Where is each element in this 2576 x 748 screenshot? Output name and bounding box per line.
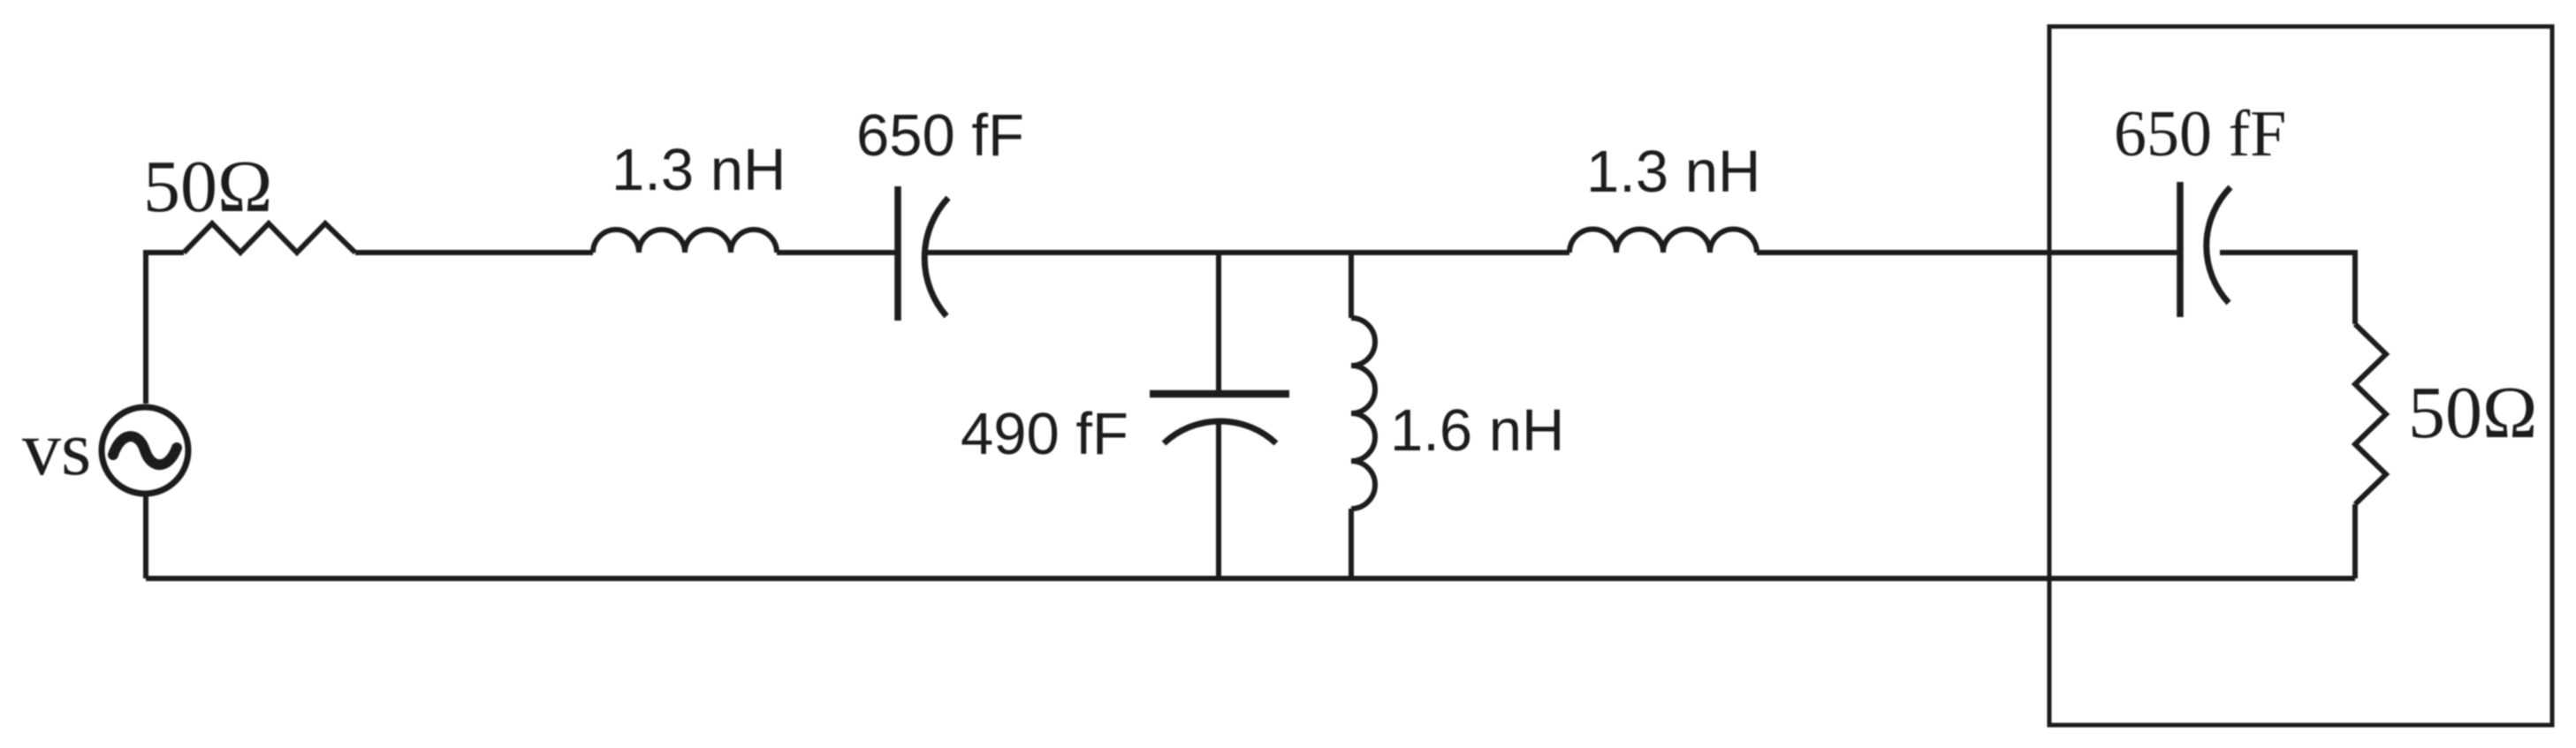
wire from L3 into box to C3 [1757,250,2177,255]
wire from R1 to L1 [355,250,593,255]
wire from source bottom to bottom rail [143,494,148,578]
capacitor C1 curved plate [924,198,948,316]
wire below R2 to bottom rail [2352,504,2358,578]
inductor L3 1.3 nH (4 humps) [1569,230,1757,253]
svg-text:50Ω: 50Ω [143,146,272,228]
bottom rail wire [146,576,2355,581]
voltage source VS circle [102,407,188,494]
node B: shunt inductor branch wire down [1349,253,1354,318]
inductor L2 1.6 nH (vertical, 4 bumps right) [1351,318,1375,509]
wire from C3 to top of R2 [2220,253,2355,324]
svg-text:1.6 nH: 1.6 nH [1390,397,1564,464]
capacitor C3 650 fF straight plate [2177,182,2184,317]
svg-text:490 fF: 490 fF [961,401,1128,467]
node A: shunt capacitor branch wire down [1216,253,1221,394]
wire below C2 to bottom rail [1216,421,1221,578]
wire from L1 to C1 [777,250,895,255]
capacitor C2 curved plate [1164,421,1276,443]
svg-text:1.3 nH: 1.3 nH [612,137,786,203]
svg-text:50Ω: 50Ω [2408,372,2537,454]
wire top-left corner from source to resistor [146,253,184,404]
resistor R1 50 ohm (series, horizontal zigzag) [184,223,355,253]
capacitor C3 curved plate [2207,187,2230,303]
voltage source sine symbol [113,436,177,465]
svg-text:vs: vs [22,406,91,492]
inductor L1 1.3 nH (4 humps) [593,230,777,253]
load box enclosure [2049,26,2552,725]
wire from C1 through junctions to L3 [927,250,1569,255]
resistor R2 50 ohm (vertical zigzag) [2355,324,2386,504]
capacitor C1 650 fF straight plate [894,186,901,321]
svg-text:1.3 nH: 1.3 nH [1586,139,1760,205]
svg-text:650 fF: 650 fF [2114,98,2286,170]
capacitor C2 490 fF flat plate [1150,390,1289,398]
wire below L2 to bottom rail [1349,509,1354,578]
svg-text:650 fF: 650 fF [856,102,1024,169]
